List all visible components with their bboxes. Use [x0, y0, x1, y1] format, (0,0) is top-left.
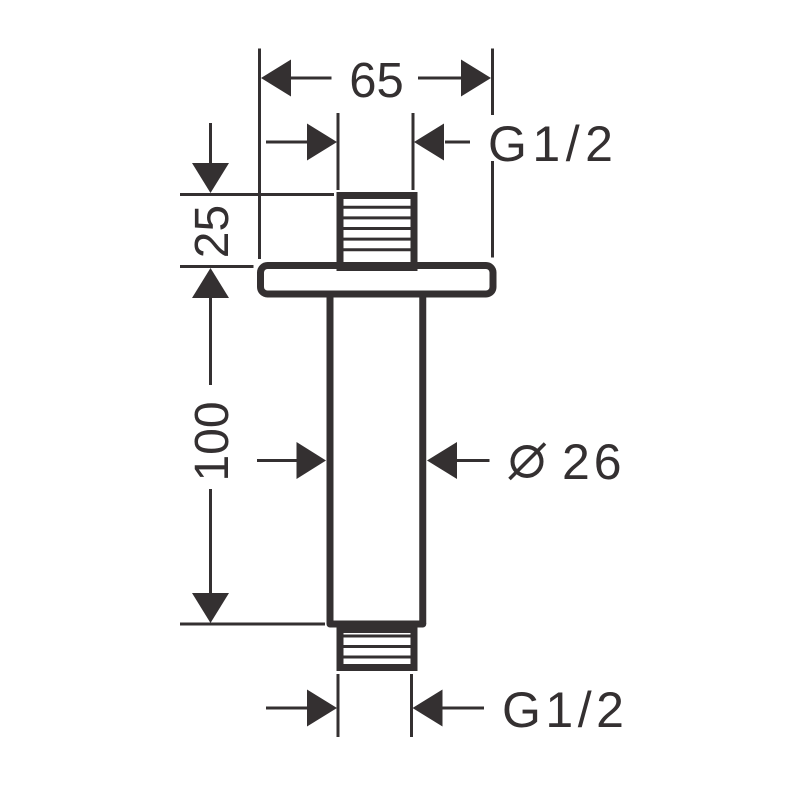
svg-text:65: 65 — [349, 54, 404, 108]
wire dim-65 line right — [418, 77, 461, 80]
wire dim-65 extension right (broken around G1/2 text) — [491, 49, 494, 258]
wire dim-G12-top line left — [266, 141, 308, 144]
wire dim-G12-bot extension left — [337, 674, 340, 737]
node arrow-G12-top-right — [414, 124, 444, 161]
node arrow-65-right — [461, 60, 491, 97]
wire pipe right edge — [419, 297, 426, 624]
wire dim-100 ref bottom — [180, 623, 325, 626]
node arrow-d26-left — [297, 442, 327, 479]
node arrow-d26-right — [427, 442, 457, 479]
node top-connector body — [340, 196, 414, 268]
wire dim-d26 line left — [257, 459, 298, 462]
wire dim-d26 line right — [457, 459, 490, 462]
svg-text:100: 100 — [186, 401, 239, 481]
svg-text:G1/2: G1/2 — [502, 682, 628, 738]
wire dim-G12-bot line left — [266, 707, 308, 710]
node arrow-G12-bot-right — [413, 690, 443, 727]
svg-text:25: 25 — [186, 205, 239, 258]
svg-text:G1/2: G1/2 — [488, 116, 618, 172]
wire top-connector threads — [344, 207, 411, 249]
wire pipe bottom edge — [330, 621, 423, 628]
wire dim-G12-bot extension right — [410, 674, 413, 737]
wire dim-100 vertical upper — [209, 298, 212, 385]
node flange — [261, 266, 494, 295]
wire dim-25 vertical upper — [209, 123, 212, 164]
wire dim-25 ref bottom — [180, 265, 254, 268]
node arrow-100-down — [192, 593, 229, 623]
node arrow-65-left — [261, 60, 291, 97]
node arrow-G12-top-left — [307, 124, 337, 161]
wire dim-G12-top extension right — [412, 113, 415, 190]
svg-text:26: 26 — [562, 434, 626, 490]
wire dim-G12-top extension left — [337, 113, 340, 190]
node arrow-G12-bot-left — [307, 690, 337, 727]
wire dim-100 vertical lower — [209, 489, 212, 593]
node bottom-connector body — [340, 630, 414, 668]
wire dim-G12-top line right — [445, 141, 470, 144]
wire dim-G12-bot line right — [443, 707, 485, 710]
wire bottom-connector threads — [344, 636, 411, 657]
node arrow-25-down — [192, 163, 229, 193]
wire pipe left edge — [327, 297, 334, 624]
node arrow-25-up — [192, 268, 229, 298]
node label-d26 diameter symbol — [510, 444, 546, 480]
wire dim-65 extension left — [258, 49, 261, 260]
wire dim-65 line left — [291, 77, 332, 80]
wire dim-25 ref top — [180, 193, 334, 196]
